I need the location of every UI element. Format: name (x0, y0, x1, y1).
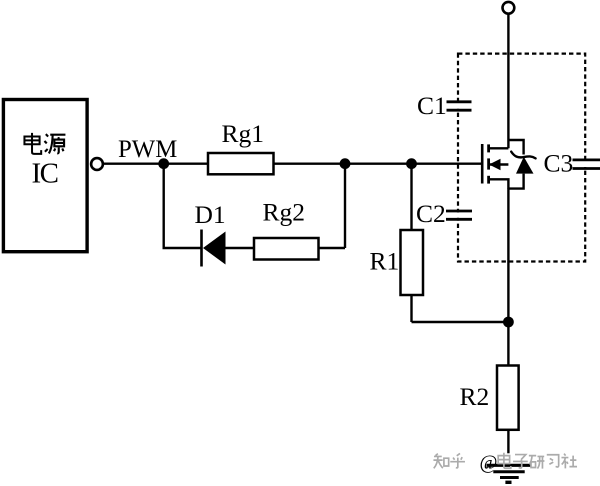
diode D1 triangle (203, 232, 226, 265)
white gap for C2 (452, 213, 464, 218)
mosfet Q1 channel segments (487, 144, 490, 152)
resistor Rg1 (208, 153, 274, 174)
node C (R1 branch) (406, 158, 417, 169)
wire Rg1 to gate (274, 162, 482, 164)
svg-text:R1: R1 (370, 247, 400, 276)
svg-text:PWM: PWM (118, 136, 177, 163)
wire node C down to R1 (410, 164, 412, 230)
wire R2 to ground (507, 430, 509, 454)
body diode cathode squiggle (511, 152, 535, 159)
resistor Rg2 (254, 238, 319, 260)
svg-text:C3: C3 (544, 148, 574, 177)
svg-text:@: @ (480, 452, 498, 473)
mosfet Q1 body lead with arrow (489, 163, 509, 165)
svg-text:R2: R2 (460, 382, 490, 411)
wire node A down (162, 164, 164, 248)
wire D1 to Rg2 (226, 247, 255, 249)
node A (PWM junction) (158, 158, 169, 169)
mosfet Q1 source lead (489, 179, 509, 189)
PWM output terminal circle (91, 158, 103, 170)
capacitor C1 (447, 100, 472, 103)
diode D1 cathode bar (200, 230, 203, 267)
capacitor C3 (573, 158, 600, 161)
wire Rg2 right (319, 247, 346, 249)
svg-text:C1: C1 (417, 91, 447, 120)
dashed package box (458, 54, 585, 262)
node B (Rg2 branch rejoin) (340, 158, 351, 169)
svg-text:Rg1: Rg1 (222, 119, 265, 148)
svg-text:D1: D1 (195, 200, 226, 229)
body diode triangle (516, 157, 534, 174)
svg-text:IC: IC (32, 158, 58, 190)
ground (487, 464, 531, 467)
wire drain vertical (507, 14, 509, 149)
body diode branch bottom (508, 174, 523, 189)
capacitor C2 (446, 210, 472, 213)
wire PWM: terminal to Rg1 (104, 162, 208, 164)
resistor R1 (401, 230, 424, 295)
svg-text:Rg2: Rg2 (263, 198, 306, 227)
body diode branch top (508, 140, 523, 155)
white gap for C1 (452, 103, 464, 109)
watermark 知乎 @电子研习社 (433, 453, 577, 469)
wire to D1 anode row (163, 247, 202, 249)
mosfet Q1 gate plate (481, 144, 484, 184)
wire source down to R2 (507, 189, 509, 366)
mosfet Q1 drain lead (489, 147, 509, 149)
power IC box (3, 100, 87, 252)
wire to source node (412, 321, 509, 323)
label 电源 (power) (24, 133, 65, 154)
wire R1 bottom (410, 295, 412, 322)
resistor R2 (497, 366, 519, 430)
wire up to node B (344, 164, 346, 248)
drain terminal (503, 2, 515, 14)
svg-text:C2: C2 (416, 199, 446, 228)
node D (source junction) (503, 317, 514, 328)
white gap for C3 (579, 161, 591, 167)
